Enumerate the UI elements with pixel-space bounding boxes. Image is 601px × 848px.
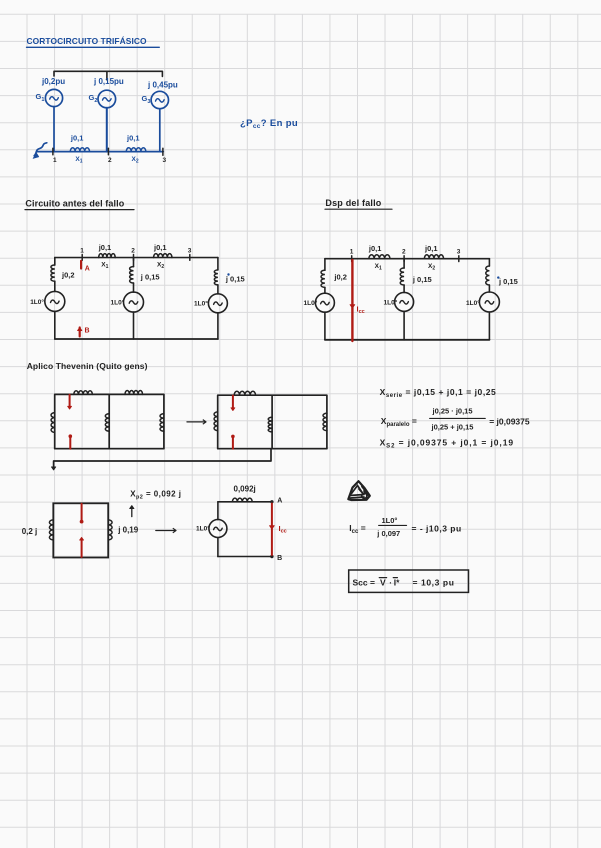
thevenin2 middle inductor bbox=[268, 417, 272, 432]
generator G3 bbox=[151, 91, 168, 108]
node 3 tick bbox=[162, 148, 164, 155]
thevenin1 right inductor bbox=[160, 414, 164, 431]
svg-text:Icc =: Icc = bbox=[349, 523, 365, 535]
thevenin1 middle inductor bbox=[105, 414, 109, 431]
svg-text:j0,2pu: j0,2pu bbox=[41, 77, 65, 86]
svg-text:1L0°: 1L0° bbox=[382, 516, 398, 525]
node 1 tick circuit B bbox=[351, 256, 353, 262]
boxed result Scc bbox=[349, 570, 469, 592]
svg-text:1L0°: 1L0° bbox=[111, 299, 125, 307]
source 2 circuit B bbox=[395, 292, 414, 311]
svg-text:= 10,3 pu: = 10,3 pu bbox=[413, 578, 455, 588]
svg-text:Icc: Icc bbox=[357, 305, 365, 316]
wire source1 to bottom circuit A bbox=[54, 311, 56, 339]
equation Xparalelo bbox=[381, 407, 530, 432]
wire G3 to bus bbox=[159, 109, 161, 152]
svg-text:1L0°: 1L0° bbox=[196, 525, 210, 533]
wire coil to source2 circuit A bbox=[133, 283, 135, 292]
wire coil to source G1 circuit A bbox=[54, 281, 56, 291]
short-circuit branch Icc (red) bbox=[350, 260, 355, 341]
svg-text:2: 2 bbox=[131, 248, 135, 255]
svg-text:j0,2: j0,2 bbox=[61, 271, 75, 280]
inductor X1 circuit A bbox=[99, 254, 115, 258]
circuit A top wire bbox=[55, 257, 218, 259]
wire coil to source3 circuit B bbox=[488, 285, 490, 292]
title Circuito antes del fallo bbox=[25, 199, 134, 210]
node B dot final circuit bbox=[270, 555, 273, 558]
stray blue dot near j0,15 label circuit B bbox=[497, 276, 499, 278]
svg-text:X2: X2 bbox=[428, 263, 435, 272]
svg-text:j0,1: j0,1 bbox=[70, 134, 84, 143]
svg-text:1: 1 bbox=[53, 157, 57, 164]
thevenin2 left inductor bbox=[214, 412, 218, 431]
svg-text:j0,25 · j0,15: j0,25 · j0,15 bbox=[432, 407, 473, 416]
svg-text:1: 1 bbox=[350, 249, 354, 256]
svg-text:3: 3 bbox=[457, 249, 461, 256]
source 2 circuit A bbox=[124, 292, 144, 312]
inductor X1 on bus bbox=[70, 148, 89, 152]
thevenin2 terminal B arrow (red) bbox=[231, 435, 235, 449]
title Dsp del fallo bbox=[325, 198, 392, 209]
svg-text:Xp2 = 0,092 j: Xp2 = 0,092 j bbox=[130, 490, 181, 501]
thevenin circuit 2 outline bbox=[218, 395, 327, 449]
node 3 tick circuit A bbox=[189, 255, 191, 261]
thevenin1 terminal B arrow (red) bbox=[69, 434, 73, 448]
final circuit top wire bbox=[218, 501, 272, 503]
thevenin2 right inductor bbox=[323, 413, 327, 430]
wire source2 to bottom circuit B bbox=[403, 311, 405, 339]
circuit C right inductor j0,19 bbox=[108, 520, 112, 540]
wire G1 to bus bbox=[53, 107, 55, 152]
circuit C terminal branch bottom (red) bbox=[80, 537, 84, 557]
title CORTOCIRCUITO TRIFASICO bbox=[27, 35, 160, 47]
svg-text:V: V bbox=[380, 578, 386, 588]
final circuit left wire top bbox=[217, 502, 219, 520]
svg-text:j0,1: j0,1 bbox=[153, 243, 167, 252]
up arrow to Xp2 label bbox=[130, 506, 134, 517]
final circuit source bbox=[209, 520, 227, 538]
svg-text:G2: G2 bbox=[89, 93, 98, 104]
svg-text:j0,1: j0,1 bbox=[98, 243, 112, 252]
final circuit left wire bottom bbox=[217, 538, 219, 557]
svg-text:1L0°: 1L0° bbox=[466, 299, 480, 307]
left branch wire circuit B bbox=[324, 259, 326, 271]
circuit A bottom wire bbox=[55, 338, 218, 340]
right branch wire circuit B bbox=[488, 259, 490, 266]
svg-text:2: 2 bbox=[108, 157, 112, 164]
connector from thevenin2 to reduced circuit bbox=[51, 449, 271, 470]
svg-text:1L0°: 1L0° bbox=[30, 298, 44, 306]
arrow to final circuit bbox=[156, 528, 176, 533]
svg-text:j 0,15: j 0,15 bbox=[225, 275, 245, 284]
inductor j0,2 circuit B bbox=[321, 270, 325, 287]
svg-text:j 0,15pu: j 0,15pu bbox=[93, 77, 124, 86]
inductor j0,15 middle circuit A bbox=[130, 267, 134, 283]
generator G2 bbox=[98, 90, 116, 108]
reduction arrow between thevenin circuits bbox=[187, 420, 206, 425]
inductor j0,15 middle circuit B bbox=[400, 268, 404, 285]
wire coil to source2 circuit B bbox=[403, 285, 405, 292]
source 3 circuit A bbox=[208, 294, 227, 313]
svg-text:j 0,097: j 0,097 bbox=[376, 529, 400, 538]
svg-text:X2: X2 bbox=[157, 262, 164, 271]
node A dot final circuit bbox=[270, 500, 273, 503]
inductor j0,15 right circuit A bbox=[214, 270, 218, 285]
svg-text:j0,25 + j0,15: j0,25 + j0,15 bbox=[431, 423, 474, 432]
equation Icc bbox=[349, 516, 461, 538]
svg-text:j0,2: j0,2 bbox=[333, 273, 347, 282]
svg-text:Icc: Icc bbox=[279, 524, 287, 535]
svg-text:Xserie = j0,15 + j0,1 = j0,25: Xserie = j0,15 + j0,1 = j0,25 bbox=[380, 387, 497, 399]
svg-text:X1: X1 bbox=[101, 262, 108, 271]
svg-text:3: 3 bbox=[163, 157, 167, 164]
svg-text:Dsp del fallo: Dsp del fallo bbox=[325, 198, 381, 208]
terminal B marker (red) bbox=[78, 328, 90, 337]
svg-text:B: B bbox=[85, 328, 90, 335]
wire source3 to bottom circuit A bbox=[217, 313, 219, 339]
thevenin circuit 1 outline bbox=[55, 394, 164, 448]
fault arrow at node 1 bbox=[33, 143, 47, 159]
svg-text:1L0°: 1L0° bbox=[384, 299, 398, 307]
middle branch wire circuit B bbox=[403, 259, 405, 268]
svg-text:G1: G1 bbox=[36, 92, 45, 103]
inductor X2 circuit B bbox=[424, 255, 443, 259]
svg-text:X1: X1 bbox=[375, 263, 382, 272]
inductor X1 circuit B bbox=[369, 255, 390, 259]
node 2 tick circuit B bbox=[403, 256, 405, 262]
thevenin2 top inductor bbox=[234, 391, 255, 395]
node 1 tick circuit A bbox=[81, 255, 83, 261]
svg-text:j 0,19: j 0,19 bbox=[117, 526, 139, 535]
source 3 circuit B bbox=[479, 292, 499, 312]
node 3 tick circuit B bbox=[458, 256, 460, 262]
svg-text:1: 1 bbox=[80, 248, 84, 255]
thevenin1 top-left inductor bbox=[74, 391, 93, 395]
svg-text:j 0,15: j 0,15 bbox=[498, 277, 518, 286]
svg-text:1L0°: 1L0° bbox=[194, 300, 208, 308]
middle branch wire circuit A bbox=[133, 258, 135, 267]
wire coil to source1 circuit B bbox=[324, 287, 326, 293]
inductor j0,15 right circuit B bbox=[486, 266, 490, 285]
circuit B top wire bbox=[325, 258, 490, 260]
svg-text:Circuito antes del fallo: Circuito antes del fallo bbox=[25, 199, 124, 209]
wire source3 to bottom circuit B bbox=[488, 312, 490, 340]
wire source1 to bottom circuit B bbox=[324, 312, 326, 340]
left branch wire circuit A bbox=[54, 258, 56, 266]
wire source2 to bottom circuit A bbox=[133, 312, 135, 339]
svg-text:0,092j: 0,092j bbox=[234, 485, 256, 494]
svg-text:X2: X2 bbox=[132, 156, 139, 165]
inductor X2 circuit A bbox=[154, 254, 172, 258]
svg-text:B: B bbox=[277, 555, 282, 562]
thevenin1 terminal A arrow (red) bbox=[68, 395, 72, 409]
node 2 tick bbox=[107, 148, 109, 155]
stray blue dot near j0,15 label circuit A bbox=[227, 273, 229, 275]
svg-text:Aplico Thevenin (Quito gens): Aplico Thevenin (Quito gens) bbox=[27, 361, 148, 371]
svg-text:= - j10,3 pu: = - j10,3 pu bbox=[412, 524, 462, 534]
circuit C terminal branch top (red) bbox=[80, 504, 84, 524]
final circuit inductor bbox=[232, 498, 252, 502]
svg-text:Xparalelo =: Xparalelo = bbox=[381, 416, 417, 428]
circuit C left inductor 0,2j bbox=[49, 520, 53, 540]
generator G1 bbox=[45, 89, 62, 106]
thevenin2 terminal A arrow (red) bbox=[231, 396, 235, 411]
svg-text:j 0,15: j 0,15 bbox=[140, 273, 160, 282]
svg-text:¿Pcc? En pu: ¿Pcc? En pu bbox=[240, 118, 298, 130]
svg-text:j0,1: j0,1 bbox=[424, 244, 438, 253]
svg-text:j0,1: j0,1 bbox=[368, 244, 382, 253]
source 1 circuit B bbox=[315, 293, 334, 312]
svg-text:CORTOCIRCUITO TRIFÁSICO: CORTOCIRCUITO TRIFÁSICO bbox=[27, 35, 148, 46]
doodle triangle sketch bbox=[348, 481, 370, 500]
svg-text:A: A bbox=[85, 266, 90, 273]
svg-text:A: A bbox=[277, 497, 282, 504]
svg-text:I*: I* bbox=[394, 578, 400, 588]
thevenin1 top-right inductor bbox=[125, 391, 143, 395]
svg-text:j0,1: j0,1 bbox=[126, 134, 140, 143]
short-circuit branch Icc final (red) bbox=[270, 504, 275, 556]
wire G2 to bus bbox=[106, 108, 108, 152]
thevenin1 left inductor bbox=[51, 413, 55, 433]
svg-text:j 0,15: j 0,15 bbox=[412, 275, 432, 284]
svg-text:1L0°: 1L0° bbox=[304, 299, 318, 307]
svg-text:= j0,09375: = j0,09375 bbox=[489, 417, 530, 427]
right branch wire circuit A bbox=[217, 258, 219, 270]
node 1 tick bbox=[52, 148, 54, 155]
inductor j0,2 circuit A bbox=[51, 265, 55, 281]
bus wire with line reactances bbox=[37, 151, 164, 153]
svg-text:·: · bbox=[389, 578, 392, 588]
source 1 circuit A bbox=[45, 291, 65, 311]
bus bracket connecting generators bbox=[54, 71, 162, 80]
svg-text:3: 3 bbox=[188, 248, 192, 255]
terminal A marker (red) bbox=[81, 261, 90, 273]
inductor X2 on bus bbox=[126, 148, 146, 152]
wire coil to source3 circuit A bbox=[217, 285, 219, 294]
svg-text:Scc =: Scc = bbox=[353, 578, 375, 588]
final circuit bottom wire bbox=[218, 556, 272, 558]
circuit B bottom wire bbox=[325, 339, 490, 341]
svg-text:2: 2 bbox=[402, 249, 406, 256]
svg-text:j 0,45pu: j 0,45pu bbox=[147, 81, 178, 90]
reduced circuit C outline bbox=[53, 503, 108, 557]
svg-text:0,2 j: 0,2 j bbox=[22, 527, 38, 536]
node 2 tick circuit A bbox=[133, 255, 135, 261]
